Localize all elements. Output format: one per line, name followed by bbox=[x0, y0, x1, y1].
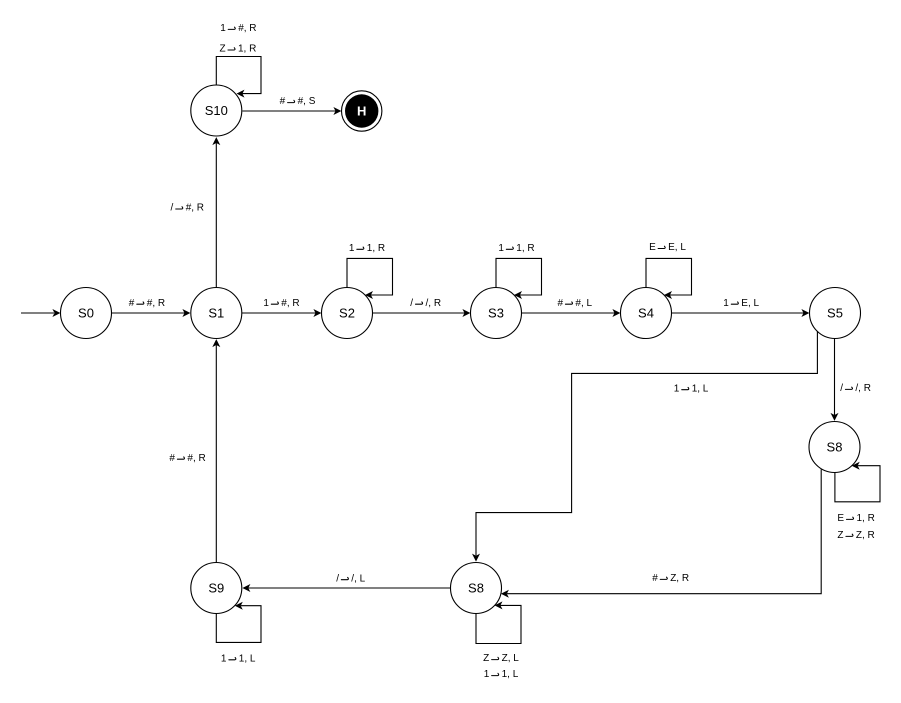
transition S1 to S2 bbox=[242, 312, 316, 314]
svg-text:/, R: /, R bbox=[426, 298, 442, 309]
svg-text:S0: S0 bbox=[78, 305, 94, 320]
svg-text:/, L: /, L bbox=[351, 573, 365, 584]
svg-text:1: 1 bbox=[263, 298, 269, 309]
svg-text:1: 1 bbox=[484, 669, 490, 680]
svg-text:Z: Z bbox=[483, 653, 489, 664]
transition S3 to S4 bbox=[522, 312, 615, 314]
svg-text:S2: S2 bbox=[339, 305, 355, 320]
transition S8 bottom to S9 bbox=[248, 587, 450, 589]
svg-text:#, L: #, L bbox=[575, 298, 592, 309]
svg-text:#: # bbox=[558, 298, 564, 309]
svg-text:Z, R: Z, R bbox=[856, 530, 875, 541]
svg-text:1, R: 1, R bbox=[238, 44, 256, 55]
svg-text:H: H bbox=[357, 104, 366, 119]
state S8 bbox=[451, 563, 502, 614]
svg-text:S8: S8 bbox=[827, 439, 843, 454]
transition S5 to S8 bottom bbox=[476, 331, 817, 555]
svg-text:/: / bbox=[336, 573, 339, 584]
state S0 bbox=[61, 288, 112, 339]
transition S8 right to S8 bottom bbox=[507, 469, 821, 593]
svg-text:#, S: #, S bbox=[298, 96, 316, 107]
svg-text:1, R: 1, R bbox=[516, 243, 534, 254]
svg-text:/: / bbox=[410, 298, 413, 309]
svg-text:1: 1 bbox=[723, 298, 729, 309]
self-loop on S8 bottom bbox=[476, 605, 521, 643]
svg-text:Z: Z bbox=[220, 44, 226, 55]
transition S9 to S1 bbox=[215, 345, 217, 562]
svg-text:E, L: E, L bbox=[741, 298, 759, 309]
svg-text:S1: S1 bbox=[208, 305, 224, 320]
svg-text:#, R: #, R bbox=[238, 23, 256, 34]
transition S0 to S1 bbox=[112, 312, 185, 314]
svg-text:S9: S9 bbox=[208, 580, 224, 595]
transition S2 to S3 bbox=[373, 312, 465, 314]
svg-text:#, R: #, R bbox=[147, 298, 165, 309]
self-loop on S2 bbox=[347, 258, 393, 295]
svg-text:#, R: #, R bbox=[187, 453, 205, 464]
svg-text:1, L: 1, L bbox=[502, 669, 519, 680]
svg-text:1: 1 bbox=[674, 383, 680, 394]
svg-text:/: / bbox=[840, 383, 843, 394]
state S4 bbox=[621, 288, 672, 339]
state S1 bbox=[191, 288, 242, 339]
svg-text:E: E bbox=[649, 242, 656, 253]
svg-text:S4: S4 bbox=[638, 305, 654, 320]
svg-text:E: E bbox=[837, 513, 844, 524]
svg-text:1, L: 1, L bbox=[239, 653, 256, 664]
svg-text:#: # bbox=[652, 573, 658, 584]
svg-text:1: 1 bbox=[221, 653, 227, 664]
state S9 bbox=[191, 563, 242, 614]
self-loop on S4 bbox=[646, 258, 692, 295]
initial arrow bbox=[21, 312, 54, 314]
halt state H bbox=[342, 91, 382, 131]
state S8 bbox=[809, 422, 860, 473]
self-loop on S3 bbox=[496, 258, 542, 295]
self-loop on S8 right bbox=[835, 466, 880, 502]
svg-text:1, R: 1, R bbox=[857, 513, 875, 524]
state S2 bbox=[322, 288, 373, 339]
svg-text:#: # bbox=[129, 298, 135, 309]
svg-text:Z, L: Z, L bbox=[502, 653, 520, 664]
svg-text:1: 1 bbox=[498, 243, 504, 254]
svg-text:/, R: /, R bbox=[855, 383, 871, 394]
transition S5 to S8 right bbox=[834, 339, 836, 415]
svg-text:/: / bbox=[171, 203, 174, 214]
svg-text:E, L: E, L bbox=[668, 242, 686, 253]
state S10 bbox=[191, 85, 242, 136]
transition S4 to S5 bbox=[672, 312, 804, 314]
svg-text:1, L: 1, L bbox=[692, 383, 709, 394]
svg-text:1: 1 bbox=[220, 23, 226, 34]
svg-text:#: # bbox=[280, 96, 286, 107]
svg-text:#: # bbox=[169, 453, 175, 464]
svg-text:1: 1 bbox=[349, 243, 355, 254]
transition S1 to S10 bbox=[215, 143, 217, 287]
svg-text:S10: S10 bbox=[205, 103, 228, 118]
svg-text:Z: Z bbox=[837, 530, 843, 541]
svg-text:S5: S5 bbox=[827, 305, 843, 320]
svg-text:#, R: #, R bbox=[281, 298, 299, 309]
transition S10 to H bbox=[242, 110, 335, 112]
svg-text:S8: S8 bbox=[468, 580, 484, 595]
svg-text:1, R: 1, R bbox=[367, 243, 385, 254]
svg-text:Z, R: Z, R bbox=[670, 573, 689, 584]
svg-text:S3: S3 bbox=[488, 305, 504, 320]
svg-text:#, R: #, R bbox=[186, 203, 204, 214]
self-loop on S10 bbox=[216, 57, 261, 94]
state S5 bbox=[810, 288, 861, 339]
self-loop on S9 bbox=[216, 606, 261, 643]
state S3 bbox=[471, 288, 522, 339]
